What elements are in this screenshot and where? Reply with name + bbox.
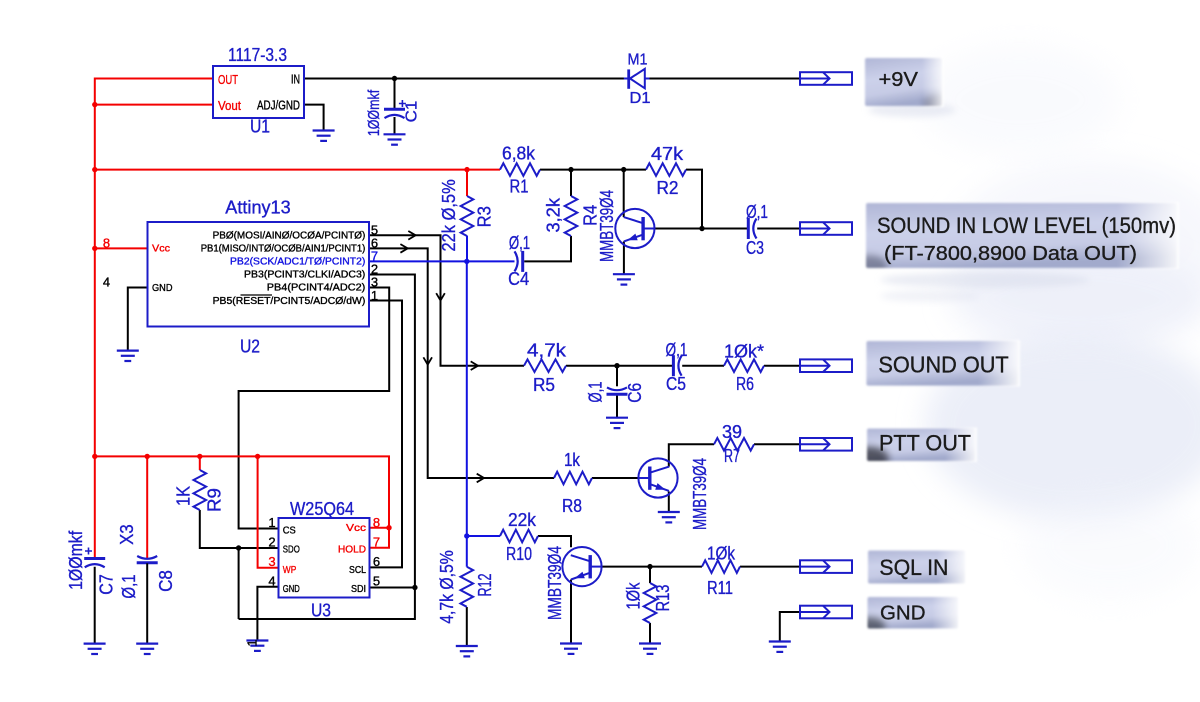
svg-text:GND: GND <box>880 601 926 624</box>
svg-text:MMBT39Ø4: MMBT39Ø4 <box>545 546 565 620</box>
svg-text:OUT: OUT <box>218 72 238 87</box>
svg-text:R5: R5 <box>533 375 555 395</box>
svg-text:WP: WP <box>283 564 297 576</box>
svg-text:Ø,1: Ø,1 <box>746 202 768 222</box>
svg-text:R10: R10 <box>506 544 532 564</box>
svg-text:R8: R8 <box>562 496 582 516</box>
svg-text:C5: C5 <box>666 374 686 394</box>
svg-text:R1: R1 <box>510 177 529 197</box>
svg-text:C4: C4 <box>508 269 529 289</box>
svg-text:R3: R3 <box>475 206 495 227</box>
svg-text:SDO: SDO <box>283 544 300 556</box>
svg-text:Ø,1: Ø,1 <box>119 574 139 598</box>
svg-text:1Øk: 1Øk <box>624 582 644 610</box>
svg-text:M1: M1 <box>628 52 648 69</box>
svg-text:Attiny13: Attiny13 <box>225 198 290 218</box>
svg-text:1: 1 <box>268 515 275 530</box>
svg-text:R11: R11 <box>707 578 733 598</box>
svg-text:U1: U1 <box>250 117 270 137</box>
svg-text:3: 3 <box>268 554 275 569</box>
svg-text:PB3(PCINT3/CLKI/ADC3): PB3(PCINT3/CLKI/ADC3) <box>244 270 365 281</box>
svg-text:22k: 22k <box>508 510 537 530</box>
svg-text:1ØØmkf: 1ØØmkf <box>366 89 383 136</box>
svg-text:4: 4 <box>268 574 275 589</box>
svg-text:Vout: Vout <box>218 98 241 113</box>
svg-text:C3: C3 <box>746 238 764 258</box>
svg-text:X3: X3 <box>117 524 137 545</box>
svg-text:PB1(MISO/INTØ/OCØB/AIN1/PCINT1: PB1(MISO/INTØ/OCØB/AIN1/PCINT1) <box>201 244 366 255</box>
svg-text:22k Ø,5%: 22k Ø,5% <box>439 179 459 251</box>
svg-text:1k: 1k <box>564 450 581 470</box>
svg-text:Ø,1: Ø,1 <box>509 233 530 253</box>
svg-text:6: 6 <box>373 554 380 569</box>
svg-text:Vcc: Vcc <box>152 243 170 255</box>
svg-text:2: 2 <box>268 535 275 550</box>
svg-text:C8: C8 <box>156 570 176 592</box>
svg-text:PTT OUT: PTT OUT <box>879 431 971 456</box>
svg-text:7: 7 <box>373 535 380 550</box>
svg-text:SDI: SDI <box>351 583 366 595</box>
svg-text:Ø,1: Ø,1 <box>586 382 606 403</box>
svg-text:4,7k Ø,5%: 4,7k Ø,5% <box>437 550 457 624</box>
svg-text:R6: R6 <box>736 374 754 394</box>
svg-text:1117-3.3: 1117-3.3 <box>228 45 287 65</box>
svg-text:R7: R7 <box>724 446 740 466</box>
svg-text:1Øk: 1Øk <box>707 544 736 564</box>
svg-text:4: 4 <box>103 275 110 290</box>
svg-text:U3: U3 <box>311 601 331 621</box>
svg-text:PB5(RESET/PCINT5/ADCØ/dW): PB5(RESET/PCINT5/ADCØ/dW) <box>213 296 366 307</box>
svg-text:5: 5 <box>373 574 380 589</box>
svg-text:1Øk*: 1Øk* <box>724 342 764 362</box>
svg-text:Ø,1: Ø,1 <box>666 340 688 360</box>
svg-text:6,8k: 6,8k <box>502 144 536 164</box>
svg-text:PBØ(MOSI/AINØ/OCØA/PCINTØ): PBØ(MOSI/AINØ/OCØA/PCINTØ) <box>213 231 366 242</box>
svg-text:3,2k: 3,2k <box>544 197 564 233</box>
svg-text:U2: U2 <box>240 337 260 357</box>
svg-text:Vcc: Vcc <box>346 522 366 534</box>
svg-text:+9V: +9V <box>879 69 919 91</box>
svg-text:SOUND IN LOW LEVEL (150mv): SOUND IN LOW LEVEL (150mv) <box>877 213 1176 238</box>
svg-text:ADJ/GND: ADJ/GND <box>257 99 300 113</box>
svg-text:8: 8 <box>373 515 380 530</box>
svg-text:R13: R13 <box>653 585 673 612</box>
svg-text:C7: C7 <box>97 574 117 595</box>
svg-text:GND: GND <box>283 583 300 595</box>
svg-text:GND: GND <box>152 282 173 294</box>
svg-text:8: 8 <box>103 236 110 251</box>
svg-text:1: 1 <box>371 288 378 303</box>
svg-text:MMBT39Ø4: MMBT39Ø4 <box>690 458 710 530</box>
svg-text:R2: R2 <box>657 178 679 198</box>
svg-text:R12: R12 <box>475 574 495 597</box>
svg-text:CS: CS <box>283 525 296 537</box>
svg-text:SCL: SCL <box>349 564 366 576</box>
svg-text:R9: R9 <box>205 488 225 512</box>
svg-text:4,7k: 4,7k <box>527 341 567 361</box>
svg-text:1: 1 <box>245 639 260 646</box>
svg-text:SOUND OUT: SOUND OUT <box>878 351 1008 377</box>
svg-text:(FT-7800,8900 Data OUT): (FT-7800,8900 Data OUT) <box>884 242 1137 265</box>
svg-text:W25Q64: W25Q64 <box>290 499 354 519</box>
svg-text:HOLD: HOLD <box>338 544 366 556</box>
svg-text:47k: 47k <box>651 144 684 164</box>
svg-text:D1: D1 <box>630 90 651 107</box>
svg-text:MMBT39Ø4: MMBT39Ø4 <box>597 190 617 262</box>
svg-text:PB2(SCK/ADC1/TØ/PCINT2): PB2(SCK/ADC1/TØ/PCINT2) <box>230 257 365 268</box>
svg-text:PB4(PCINT4/ADC2): PB4(PCINT4/ADC2) <box>267 283 366 294</box>
svg-text:C6: C6 <box>625 383 645 403</box>
svg-text:1ØØmkf: 1ØØmkf <box>66 530 86 590</box>
svg-text:SQL IN: SQL IN <box>879 555 948 580</box>
svg-text:1K: 1K <box>174 486 194 506</box>
svg-text:IN: IN <box>291 73 300 87</box>
svg-text:39: 39 <box>722 422 742 442</box>
svg-text:C1: C1 <box>404 101 421 123</box>
